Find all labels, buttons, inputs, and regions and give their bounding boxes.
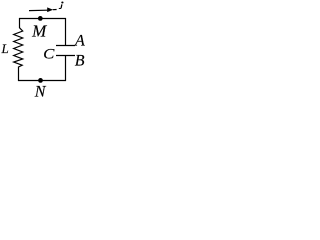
svg-text:M: M [31, 22, 47, 41]
current arrow head [47, 7, 53, 12]
svg-text:B: B [75, 53, 85, 70]
svg-text:A: A [74, 33, 85, 50]
wire top [19, 18, 66, 20]
current arrow shaft [29, 9, 48, 11]
svg-text:L: L [1, 41, 9, 56]
node N junction dot [38, 78, 43, 83]
label i [61, 1, 63, 3]
inductor L zigzag [14, 28, 23, 67]
node M junction dot [38, 16, 43, 21]
svg-text:N: N [34, 83, 47, 97]
wire left upper segment [19, 18, 21, 28]
current arrow trail [53, 9, 57, 11]
capacitor C top plate A [56, 45, 75, 47]
capacitor C bottom plate B [56, 55, 75, 57]
wire right lower segment [65, 56, 67, 82]
wire bottom [18, 80, 66, 82]
wire left lower segment [18, 67, 20, 82]
svg-text:C: C [43, 46, 55, 62]
wire right upper segment [65, 18, 67, 46]
circuit schematic: LC loop with inductor L, capacitor C (plates A,B), nodes M,N, current i [0, 0, 85, 97]
